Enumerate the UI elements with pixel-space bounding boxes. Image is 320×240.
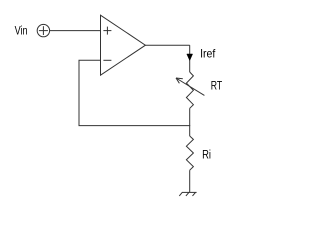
wire feedback bottom xyxy=(79,125,191,127)
resistor RT xyxy=(186,72,193,108)
svg-text:RT: RT xyxy=(211,81,222,93)
svg-text:Ri: Ri xyxy=(202,150,211,162)
svg-text:Iref: Iref xyxy=(200,47,216,61)
resistor Ri xyxy=(186,136,193,170)
op-amp U1 xyxy=(101,15,146,75)
current arrow Iref xyxy=(187,54,193,61)
wire Ri to ground xyxy=(189,170,191,192)
variable arrow of RT xyxy=(176,78,204,95)
wire RT to junction xyxy=(189,108,191,136)
wire op-amp inverting input xyxy=(79,59,101,61)
wire op-amp output xyxy=(145,44,189,46)
wire feedback vertical xyxy=(78,60,80,125)
wire output rail down to RT xyxy=(189,45,191,72)
ground xyxy=(179,192,196,196)
terminal Vin xyxy=(37,24,49,36)
wire Vin to op-amp noninverting input xyxy=(50,30,101,32)
svg-text:Vin: Vin xyxy=(15,26,28,38)
